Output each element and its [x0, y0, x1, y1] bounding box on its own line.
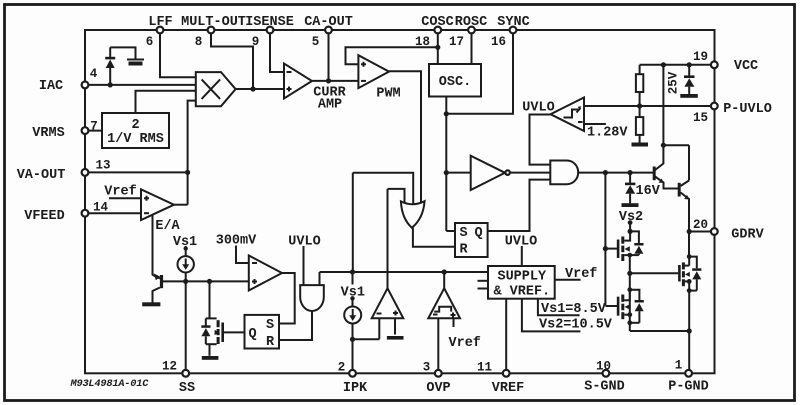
svg-text:16V: 16V: [636, 184, 661, 199]
svg-text:Vs2=10.5V: Vs2=10.5V: [539, 318, 613, 333]
svg-text:17: 17: [449, 35, 464, 49]
svg-text:E/A: E/A: [155, 219, 180, 234]
svg-text:OSC.: OSC.: [439, 75, 471, 90]
svg-text:3: 3: [423, 361, 431, 375]
svg-text:P-UVLO: P-UVLO: [723, 102, 772, 117]
svg-text:11: 11: [477, 361, 492, 375]
svg-text:CA-OUT: CA-OUT: [304, 15, 353, 30]
svg-text:SS: SS: [179, 381, 195, 396]
svg-text:VRMS: VRMS: [32, 126, 64, 141]
svg-text:SUPPLY: SUPPLY: [497, 270, 547, 285]
svg-text:4: 4: [90, 67, 98, 81]
svg-text:S-GND: S-GND: [584, 380, 625, 395]
svg-text:7: 7: [90, 120, 98, 134]
svg-text:Vref: Vref: [565, 267, 597, 282]
svg-text:UVLO: UVLO: [522, 101, 554, 116]
svg-text:ROSC: ROSC: [455, 15, 487, 30]
svg-text:S: S: [459, 226, 467, 241]
svg-text:ISENSE: ISENSE: [245, 15, 294, 30]
svg-text:Vref: Vref: [449, 336, 481, 351]
svg-text:VFEED: VFEED: [24, 209, 65, 224]
svg-text:Q: Q: [248, 327, 256, 342]
svg-text:UVLO: UVLO: [505, 235, 537, 250]
svg-text:2: 2: [131, 118, 139, 133]
svg-text:MULT-OUT: MULT-OUT: [181, 15, 246, 30]
svg-text:25V: 25V: [667, 71, 681, 94]
svg-text:Vs1=8.5V: Vs1=8.5V: [541, 302, 607, 317]
svg-text:IPK: IPK: [343, 381, 368, 396]
svg-text:GDRV: GDRV: [731, 228, 764, 243]
svg-text:6: 6: [146, 35, 154, 49]
svg-text:14: 14: [93, 201, 109, 215]
svg-text:1.28V: 1.28V: [587, 126, 628, 141]
svg-text:1/V RMS: 1/V RMS: [107, 132, 164, 147]
svg-text:8: 8: [195, 35, 203, 49]
svg-text:13: 13: [95, 159, 110, 173]
svg-text:5: 5: [312, 35, 320, 49]
svg-text:12: 12: [162, 360, 177, 374]
svg-text:R: R: [459, 243, 468, 258]
svg-text:19: 19: [693, 50, 708, 64]
svg-text:P-GND: P-GND: [668, 380, 709, 395]
svg-text:M93L4981A-01C: M93L4981A-01C: [70, 378, 150, 390]
svg-text:AMP: AMP: [318, 98, 342, 113]
svg-text:UVLO: UVLO: [288, 235, 320, 250]
svg-text:15: 15: [693, 111, 708, 125]
svg-text:20: 20: [693, 218, 708, 232]
svg-text:COSC: COSC: [421, 15, 453, 30]
svg-text:10: 10: [596, 360, 611, 374]
svg-text:VCC: VCC: [734, 59, 758, 74]
svg-text:2: 2: [338, 361, 346, 375]
svg-text:Vref: Vref: [104, 185, 136, 200]
svg-text:18: 18: [415, 35, 430, 49]
svg-text:IAC: IAC: [39, 79, 63, 94]
svg-text:OVP: OVP: [426, 381, 450, 396]
svg-text:1: 1: [675, 359, 683, 373]
svg-text:VREF: VREF: [492, 381, 524, 396]
svg-text:R: R: [266, 335, 275, 350]
svg-text:VA-OUT: VA-OUT: [17, 168, 66, 183]
svg-text:LFF: LFF: [148, 15, 172, 30]
svg-text:Q: Q: [474, 226, 482, 241]
svg-text:S: S: [266, 318, 274, 333]
svg-text:PWM: PWM: [376, 87, 400, 102]
svg-text:9: 9: [252, 35, 260, 49]
svg-text:SYNC: SYNC: [497, 15, 529, 30]
svg-text:16: 16: [491, 35, 506, 49]
svg-text:& VREF.: & VREF.: [493, 285, 550, 300]
